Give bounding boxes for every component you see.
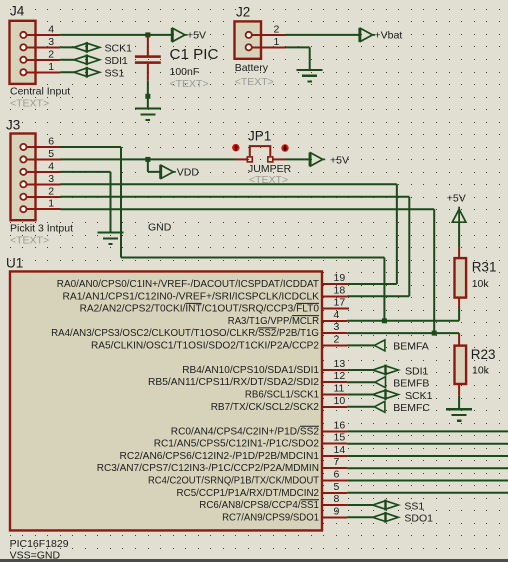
- svg-text:4: 4: [48, 160, 54, 172]
- svg-text:SDI1: SDI1: [105, 55, 129, 67]
- svg-text:15: 15: [334, 432, 346, 444]
- power terminal +5V (J4): [172, 28, 206, 42]
- terminal BEMFC: [347, 401, 430, 414]
- svg-text:100nF: 100nF: [170, 66, 200, 78]
- capacitor C1 100nF: [135, 36, 219, 90]
- ground (J2): [297, 70, 323, 82]
- power terminal VDD: [160, 165, 199, 179]
- svg-text:10: 10: [334, 395, 346, 407]
- ground (R23): [446, 409, 472, 421]
- svg-text:SDI1: SDI1: [405, 365, 429, 377]
- svg-text:R31: R31: [472, 260, 497, 275]
- terminal SDI1 (U1): [347, 365, 428, 378]
- svg-text:6: 6: [48, 135, 54, 147]
- svg-text:+5V: +5V: [187, 30, 206, 42]
- svg-text:10k: 10k: [472, 278, 490, 290]
- svg-text:5: 5: [48, 148, 54, 160]
- terminal SCK1 (J4): [60, 42, 132, 55]
- svg-text:2: 2: [274, 23, 280, 35]
- wire J4 pin4 to +5V: [60, 32, 172, 37]
- wire U1 pin7 to edge: [347, 467, 508, 469]
- svg-text:J3: J3: [6, 118, 20, 133]
- svg-text:RC4/C2OUT/SRNQ/P1B/TX/CK/MDOUT: RC4/C2OUT/SRNQ/P1B/TX/CK/MDOUT: [148, 476, 319, 487]
- wire U1 pin16 to edge: [347, 430, 508, 432]
- svg-text:J4: J4: [10, 4, 25, 19]
- bottom border bar: [0, 559, 508, 562]
- svg-text:6: 6: [334, 469, 340, 481]
- svg-text:SCK1: SCK1: [105, 43, 133, 55]
- svg-text:SDO1: SDO1: [404, 513, 433, 525]
- svg-text:8: 8: [334, 493, 340, 505]
- terminal SCK1 (U1): [347, 389, 432, 402]
- svg-text:RC5/CCP1/P1A/RX/DT/MDCIN2: RC5/CCP1/P1A/RX/DT/MDCIN2: [177, 488, 320, 499]
- svg-text:3: 3: [334, 321, 340, 333]
- svg-text:Battery: Battery: [235, 62, 269, 74]
- connector J3 Pickit 3: [6, 118, 73, 247]
- ground (J3): [98, 233, 124, 245]
- svg-text:3: 3: [48, 36, 54, 48]
- wire R23 to ground: [458, 395, 460, 409]
- svg-text:SS1: SS1: [404, 500, 424, 512]
- terminal BEMFA: [347, 340, 429, 353]
- svg-text:5: 5: [334, 481, 340, 493]
- svg-text:+5V: +5V: [330, 155, 349, 167]
- svg-text:RA2/AN2/CPS2/T0CKI/INT/C1OUT/S: RA2/AN2/CPS2/T0CKI/INT/C1OUT/SRQ/CCP3/FL…: [80, 304, 320, 315]
- svg-text:<TEXT>: <TEXT>: [235, 76, 274, 88]
- svg-text:BEMFB: BEMFB: [393, 377, 429, 389]
- resistor R31 10k: [455, 247, 497, 307]
- svg-text:JP1: JP1: [248, 129, 271, 144]
- svg-text:10k: 10k: [472, 365, 490, 377]
- svg-text:14: 14: [334, 444, 346, 456]
- svg-text:17: 17: [334, 297, 346, 309]
- svg-text:<TEXT>: <TEXT>: [10, 234, 49, 246]
- connector J4: [10, 4, 71, 110]
- svg-text:BEMFA: BEMFA: [393, 341, 429, 353]
- svg-text:RB5/AN11/CPS11/RX/DT/SDA2/SDI2: RB5/AN11/CPS11/RX/DT/SDA2/SDI2: [148, 377, 319, 388]
- connector J2 Battery: [235, 5, 286, 88]
- ground (C1): [135, 109, 161, 121]
- wire U1 pin18: [347, 295, 409, 297]
- svg-text:PIC16F1829: PIC16F1829: [10, 538, 69, 550]
- power terminal +5V (R31): [447, 192, 466, 222]
- IC U1 PIC16F1829: [6, 255, 349, 561]
- svg-text:3: 3: [48, 173, 54, 185]
- svg-text:Pickit 3 Intput: Pickit 3 Intput: [10, 222, 73, 234]
- svg-text:18: 18: [334, 284, 346, 296]
- wire U1 pin3 net: [347, 331, 459, 336]
- svg-text:SCK1: SCK1: [405, 390, 433, 402]
- terminal SDI1 (J4): [60, 54, 128, 67]
- svg-text:RA3/T1G/VPP/MCLR: RA3/T1G/VPP/MCLR: [228, 316, 319, 327]
- svg-text:2: 2: [48, 48, 54, 60]
- terminal SDO1 (U1): [347, 512, 433, 525]
- wire U1 pin15 to edge: [347, 443, 508, 445]
- terminal SS1 (U1): [347, 500, 424, 513]
- svg-text:RA0/AN0/CPS0/C1IN+/VREF-/DACOU: RA0/AN0/CPS0/C1IN+/VREF-/DACOUT/ICSPDAT/…: [57, 279, 319, 290]
- svg-text:7: 7: [334, 456, 340, 468]
- wire U1 pin19: [347, 283, 397, 285]
- svg-text:<TEXT>: <TEXT>: [170, 78, 209, 90]
- wire U1 pin4 MCLR net: [347, 318, 459, 323]
- wire J3 pin1 to U1 pin3: [60, 209, 434, 333]
- svg-text:RC6/AN8/CPS8/CCP4/SS1: RC6/AN8/CPS8/CCP4/SS1: [199, 500, 319, 511]
- svg-text:SS1: SS1: [105, 67, 125, 79]
- svg-text:13: 13: [334, 358, 346, 370]
- power terminal +Vbat: [360, 28, 403, 42]
- wire pin3 net to R23: [458, 333, 460, 346]
- terminal BEMFB: [347, 377, 429, 390]
- svg-text:2: 2: [334, 333, 340, 345]
- svg-text:Central Input: Central Input: [10, 86, 70, 98]
- svg-text:RA4/AN3/CPS3/OSC2/CLKOUT/T1OSO: RA4/AN3/CPS3/OSC2/CLKOUT/T1OSO/CLKR/SS2/…: [51, 328, 319, 339]
- svg-text:BEMFC: BEMFC: [393, 402, 430, 414]
- wire J3 pin3 to U1 pin19: [60, 184, 397, 284]
- svg-text:<TEXT>: <TEXT>: [10, 97, 49, 109]
- svg-text:RA1/AN1/CPS1/C12IN0-/VREF+/SRI: RA1/AN1/CPS1/C12IN0-/VREF+/SRI/ICSPCLK/I…: [63, 291, 320, 302]
- svg-text:9: 9: [334, 505, 340, 517]
- wire C1 to ground: [145, 81, 150, 109]
- wire J3 pin4 to ground: [60, 172, 110, 233]
- wire J2 pin1 to ground: [286, 47, 310, 70]
- wire U1 pin14 to edge: [347, 455, 508, 457]
- svg-text:C1 PIC: C1 PIC: [170, 46, 219, 63]
- svg-text:1: 1: [48, 61, 54, 73]
- svg-text:4: 4: [48, 23, 54, 35]
- svg-text:RC1/AN5/CPS5/C12IN1-/P1C/SDO2: RC1/AN5/CPS5/C12IN1-/P1C/SDO2: [154, 439, 320, 450]
- terminal SS1 (J4): [60, 67, 124, 80]
- svg-text:19: 19: [334, 272, 346, 284]
- svg-text:RB4/AN10/CPS10/SDA1/SDI1: RB4/AN10/CPS10/SDA1/SDI1: [182, 365, 319, 376]
- svg-text:RC3/AN7/CPS7/C12IN3-/P1C/CCP2/: RC3/AN7/CPS7/C12IN3-/P1C/CCP2/P2A/MDMIN: [97, 463, 319, 474]
- wire JP1 to +5V: [285, 158, 310, 160]
- svg-text:GND: GND: [148, 221, 172, 233]
- svg-text:4: 4: [334, 309, 340, 321]
- svg-text:U1: U1: [6, 255, 23, 270]
- svg-text:2: 2: [48, 185, 54, 197]
- wire J3 pin5 to JP1 and VDD: [60, 157, 236, 172]
- wire U1 pin6 to edge: [347, 480, 508, 482]
- wire +5V to R31: [458, 223, 460, 248]
- svg-text:11: 11: [334, 383, 345, 395]
- wire J3 pin2 to U1 pin18: [60, 197, 409, 297]
- wire J2 pin2 to +Vbat: [286, 34, 360, 36]
- svg-text:RC0/AN4/CPS4/C2IN+/P1D/SS2: RC0/AN4/CPS4/C2IN+/P1D/SS2: [171, 426, 320, 437]
- svg-text:+5V: +5V: [447, 192, 466, 204]
- jumper JP1: [232, 129, 291, 186]
- wire J3 pin6 to U1 MCLR: [60, 147, 384, 321]
- svg-text:RB6/SCL1/SCK1: RB6/SCL1/SCK1: [245, 390, 319, 401]
- power terminal +5V (JP1): [310, 152, 349, 166]
- svg-text:1: 1: [48, 198, 54, 210]
- svg-text:VDD: VDD: [177, 167, 200, 179]
- svg-text:RA5/CLKIN/OSC1/T1OSI/SDO2/T1CK: RA5/CLKIN/OSC1/T1OSI/SDO2/T1CKI/P2A/CCP2: [91, 340, 319, 351]
- svg-text:RC2/AN6/CPS6/C12IN2-/P1D/P2B/M: RC2/AN6/CPS6/C12IN2-/P1D/P2B/MDCIN1: [120, 451, 320, 462]
- svg-text:+Vbat: +Vbat: [375, 30, 403, 42]
- svg-text:RB7/TX/CK/SCL2/SCK2: RB7/TX/CK/SCL2/SCK2: [211, 402, 320, 413]
- svg-text:RC7/AN9/CPS9/SDO1: RC7/AN9/CPS9/SDO1: [222, 512, 319, 523]
- svg-text:J2: J2: [236, 5, 250, 20]
- label GND: [148, 221, 172, 233]
- svg-text:12: 12: [334, 370, 346, 382]
- resistor R23 10k: [455, 346, 496, 396]
- svg-text:1: 1: [274, 36, 280, 48]
- svg-text:16: 16: [334, 419, 346, 431]
- svg-text:R23: R23: [471, 347, 496, 362]
- wire R31 to MCLR net: [458, 307, 460, 321]
- wire U1 pin5 to edge: [347, 492, 508, 494]
